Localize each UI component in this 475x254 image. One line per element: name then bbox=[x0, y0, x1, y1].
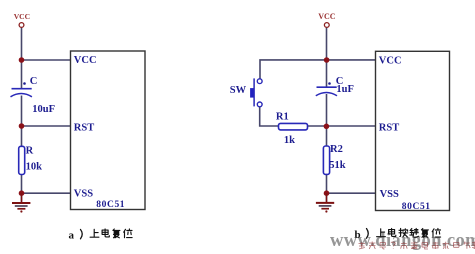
svg-text:b: b bbox=[355, 229, 361, 241]
svg-text:SW: SW bbox=[230, 85, 247, 96]
svg-text:RST: RST bbox=[379, 122, 399, 133]
svg-text:C: C bbox=[30, 76, 38, 87]
svg-text:1uF: 1uF bbox=[336, 84, 354, 95]
svg-text:VCC: VCC bbox=[318, 12, 336, 21]
svg-text:R1: R1 bbox=[276, 112, 289, 123]
svg-text:RST: RST bbox=[74, 123, 94, 134]
svg-text:VSS: VSS bbox=[74, 189, 93, 200]
svg-text:www.diangon.com: www.diangon.com bbox=[330, 231, 475, 251]
svg-text:VCC: VCC bbox=[379, 56, 402, 67]
svg-text:VCC: VCC bbox=[14, 12, 30, 21]
svg-text:R2: R2 bbox=[330, 144, 343, 155]
svg-text:1k: 1k bbox=[284, 135, 295, 146]
svg-text:VCC: VCC bbox=[74, 55, 97, 66]
svg-text:a: a bbox=[69, 230, 75, 242]
svg-text:80C51: 80C51 bbox=[402, 202, 431, 212]
svg-text:10uF: 10uF bbox=[32, 104, 55, 115]
svg-text:80C51: 80C51 bbox=[96, 200, 125, 210]
svg-text:R: R bbox=[26, 145, 34, 156]
svg-text:10k: 10k bbox=[26, 161, 42, 172]
svg-text:51k: 51k bbox=[329, 160, 346, 171]
svg-text:VSS: VSS bbox=[380, 189, 399, 200]
